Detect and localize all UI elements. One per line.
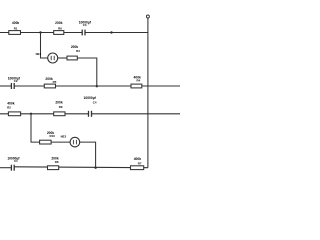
svg-text:R1: R1 — [14, 26, 18, 30]
resistor R1 — [9, 21, 21, 34]
wire row3 mid — [14, 85, 180, 87]
wire row1 right — [85, 32, 148, 34]
svg-text:C3: C3 — [83, 23, 87, 27]
node C junction dot row3 — [96, 85, 98, 87]
wire NE-2 branch — [31, 114, 40, 142]
resistor R5 — [44, 77, 56, 88]
svg-text:400k: 400k — [134, 157, 142, 161]
svg-text:C4: C4 — [93, 100, 97, 104]
svg-text:C1: C1 — [14, 159, 18, 163]
svg-text:10000µf: 10000µf — [84, 96, 97, 100]
terminal circle top right — [146, 15, 149, 18]
node A junction dot row1 — [39, 31, 41, 33]
resistor R10 — [40, 131, 56, 144]
svg-text:200k: 200k — [55, 101, 63, 105]
capacitor C2 — [8, 76, 21, 89]
svg-text:R3: R3 — [76, 49, 80, 53]
svg-text:200k: 200k — [55, 21, 63, 25]
svg-text:R4: R4 — [137, 79, 141, 83]
wire row4 left — [0, 113, 89, 115]
resistor R3 — [67, 45, 80, 60]
svg-text:R5: R5 — [53, 80, 57, 84]
wire row3 left — [0, 85, 11, 87]
svg-text:400k: 400k — [7, 102, 15, 106]
wire R10 to NE-2 — [51, 141, 70, 143]
wire row6 right — [14, 166, 148, 169]
wire NE-1 branch — [41, 33, 48, 59]
node E junction dot row6 — [94, 167, 96, 169]
resistor R9 — [54, 101, 65, 116]
wire row6 left — [0, 167, 11, 169]
svg-text:R10: R10 — [50, 134, 56, 138]
capacitor C3 — [79, 20, 92, 35]
capacitor C4 — [84, 96, 97, 117]
svg-text:R2: R2 — [7, 106, 11, 110]
svg-text:R9: R9 — [59, 105, 63, 109]
node B junction dot row1 — [110, 31, 112, 33]
resistor R2 — [7, 102, 20, 116]
svg-text:400k: 400k — [12, 21, 20, 25]
node D junction dot row4 — [30, 113, 32, 115]
svg-text:NE1: NE1 — [36, 52, 42, 56]
svg-text:NE2: NE2 — [61, 135, 67, 139]
wire NE-2 to row6 — [80, 142, 96, 168]
svg-text:R7: R7 — [138, 162, 142, 166]
wire NE-1 to R3 — [58, 57, 67, 59]
neon lamp NE-2 — [61, 135, 80, 147]
svg-text:200k: 200k — [71, 45, 79, 49]
wire row1 left — [0, 32, 82, 34]
svg-text:R6: R6 — [58, 26, 62, 30]
svg-text:200k: 200k — [45, 77, 53, 81]
wire row4 right — [92, 113, 181, 115]
capacitor C1 — [7, 157, 20, 171]
resistor R4 — [131, 75, 142, 88]
svg-text:R8: R8 — [55, 160, 59, 164]
resistor R8 — [48, 157, 59, 170]
wire right rail — [147, 18, 149, 168]
svg-text:C2: C2 — [14, 79, 18, 83]
resistor R7 — [131, 157, 144, 170]
neon lamp NE-1 — [36, 52, 58, 63]
resistor R6 — [54, 21, 64, 34]
wire R3 to row3 — [77, 58, 97, 86]
